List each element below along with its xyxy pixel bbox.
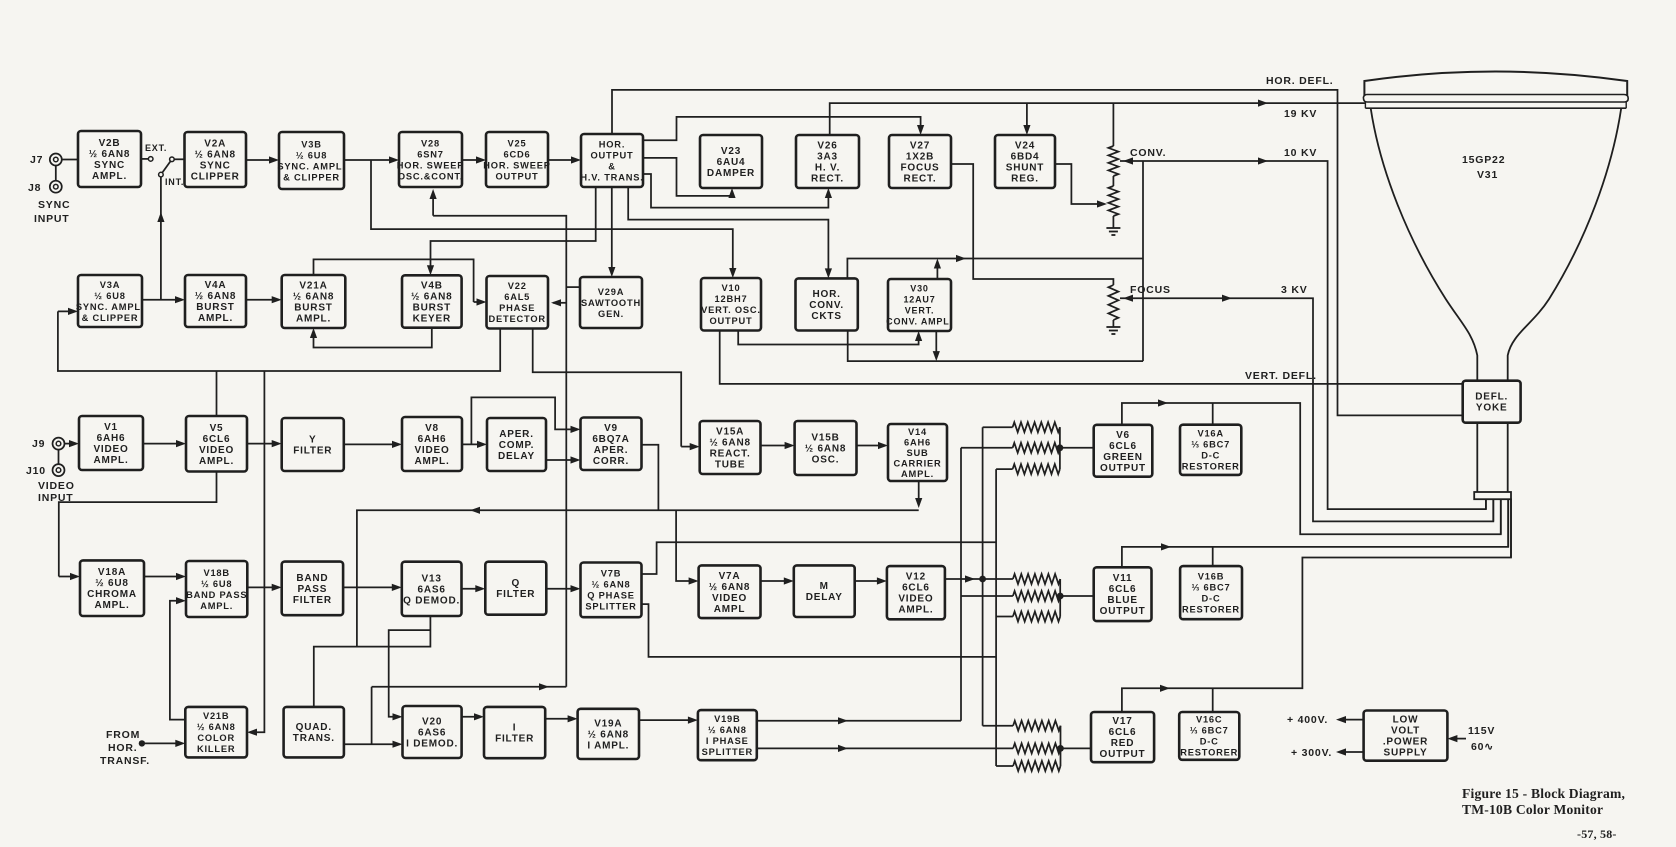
svg-text:SYNC: SYNC — [200, 161, 231, 172]
wire +300V — [1339, 751, 1364, 753]
svg-text:V29A: V29A — [598, 287, 624, 297]
wire V4A to V21A — [246, 299, 279, 301]
svg-text:QUAD.: QUAD. — [296, 722, 332, 733]
svg-text:V4B: V4B — [421, 281, 443, 292]
svg-text:V11: V11 — [1113, 573, 1133, 584]
block V18B bandpass ampl — [186, 561, 247, 617]
block V2A sync clipper — [185, 132, 247, 187]
svg-text:CHROMA: CHROMA — [87, 589, 137, 600]
wire V16B stub — [1212, 547, 1214, 566]
svg-text:RECT.: RECT. — [904, 174, 937, 185]
svg-text:APER.: APER. — [499, 429, 534, 440]
wire keying pulse to V4B — [431, 187, 596, 272]
wire V15A to V15B — [761, 445, 792, 447]
resistor red 3 — [996, 765, 1013, 767]
svg-text:6AH6: 6AH6 — [418, 434, 447, 445]
resistor green 2 — [961, 447, 1013, 449]
svg-text:.POWER: .POWER — [1383, 737, 1428, 748]
block Y filter — [282, 418, 344, 471]
svg-text:SYNC. AMPL.: SYNC. AMPL. — [76, 302, 144, 312]
wire M delay to V12 — [855, 580, 884, 582]
svg-text:DELAY: DELAY — [498, 451, 535, 462]
svg-text:J10: J10 — [26, 465, 46, 477]
svg-text:V18B: V18B — [203, 568, 229, 578]
wire blue output line — [1122, 498, 1508, 567]
svg-text:RESTORER: RESTORER — [1182, 462, 1240, 472]
svg-text:V15B: V15B — [811, 433, 839, 444]
svg-text:& CLIPPER: & CLIPPER — [283, 172, 340, 182]
wire V22 right bus — [533, 329, 682, 447]
wire V2A to V3B — [246, 159, 276, 161]
svg-text:VIDEO: VIDEO — [93, 444, 128, 455]
svg-text:V20: V20 — [422, 717, 442, 728]
svg-text:½ 6U8: ½ 6U8 — [95, 578, 128, 589]
svg-text:V6: V6 — [1116, 430, 1130, 441]
svg-text:6AU4: 6AU4 — [717, 157, 746, 168]
svg-text:GEN.: GEN. — [598, 309, 624, 319]
svg-text:6CD6: 6CD6 — [504, 149, 531, 159]
block V24 shunt reg — [995, 135, 1055, 188]
wire 115V input — [1450, 738, 1466, 740]
wire sawtooth to V22 — [553, 302, 566, 304]
wire V1 to V5 — [143, 443, 183, 445]
wire V16A stub — [1212, 403, 1214, 425]
svg-text:FOCUS: FOCUS — [901, 163, 940, 174]
svg-text:AMPL.: AMPL. — [92, 171, 127, 182]
wire 10KV conv line — [1120, 161, 1486, 509]
block band pass filter — [282, 562, 343, 616]
svg-text:YOKE: YOKE — [1476, 403, 1508, 414]
wire matrix Q vertical — [995, 469, 997, 766]
wire V25 to hor output — [548, 159, 578, 161]
wire 19KV branch to conv pot — [1112, 103, 1114, 146]
svg-text:½ 6AN8: ½ 6AN8 — [805, 444, 847, 455]
svg-text:½ 6AN8: ½ 6AN8 — [588, 729, 630, 740]
wire hor transf to V21B — [142, 742, 182, 744]
svg-text:SYNC: SYNC — [38, 199, 70, 211]
svg-text:D-C: D-C — [1202, 593, 1221, 603]
svg-text:I: I — [513, 723, 517, 734]
wire V22 left bus — [58, 311, 500, 371]
svg-text:COLOR: COLOR — [197, 733, 235, 743]
svg-text:6CL6: 6CL6 — [203, 434, 231, 445]
svg-text:V8: V8 — [425, 423, 439, 434]
block V4A burst ampl — [185, 275, 246, 327]
svg-text:V30: V30 — [910, 284, 928, 294]
svg-text:J9: J9 — [32, 438, 45, 450]
block V14 subcarrier ampl — [888, 424, 947, 481]
svg-text:DEFL.: DEFL. — [1475, 392, 1508, 403]
resistor green 3 — [996, 468, 1013, 470]
svg-text:REACT.: REACT. — [710, 449, 751, 460]
svg-text:HOR.: HOR. — [812, 289, 840, 300]
wire matrix I vertical — [960, 448, 962, 721]
svg-text:115V: 115V — [1468, 725, 1495, 737]
wire V16C stub — [1212, 688, 1214, 712]
wire quad line to V20 — [389, 630, 431, 717]
svg-text:CARRIER: CARRIER — [894, 458, 942, 468]
block Q filter — [485, 562, 546, 615]
svg-text:V2B: V2B — [99, 138, 121, 149]
svg-text:RECT.: RECT. — [811, 174, 844, 185]
wire V14 output stub — [918, 481, 920, 505]
wire +400V — [1339, 719, 1364, 721]
svg-text:VOLT: VOLT — [1391, 726, 1420, 737]
svg-text:VIDEO: VIDEO — [199, 445, 234, 456]
connector J10 — [53, 464, 65, 476]
svg-text:&: & — [608, 161, 616, 171]
svg-text:V12: V12 — [906, 572, 926, 583]
wire CRT pin 2 — [1492, 499, 1494, 521]
wire V3A to V4A — [142, 299, 182, 301]
svg-text:OUTPUT: OUTPUT — [1100, 463, 1146, 474]
svg-text:AMPL.: AMPL. — [901, 469, 934, 479]
svg-text:CLIPPER: CLIPPER — [191, 172, 240, 183]
svg-text:V9: V9 — [604, 423, 618, 434]
svg-text:½ 6AN8: ½ 6AN8 — [411, 292, 453, 303]
svg-text:AMPL.: AMPL. — [198, 313, 233, 324]
svg-text:H.V. TRANS.: H.V. TRANS. — [580, 172, 643, 182]
svg-text:SPLITTER: SPLITTER — [585, 602, 636, 612]
svg-text:½ 6U8: ½ 6U8 — [94, 291, 125, 301]
wire V27 to focus pot — [951, 164, 1113, 285]
svg-text:VIDEO: VIDEO — [38, 480, 75, 492]
svg-text:V5: V5 — [210, 423, 224, 434]
wire I filter to V19A — [545, 718, 574, 720]
svg-text:SPLITTER: SPLITTER — [702, 747, 753, 757]
svg-text:AMPL.: AMPL. — [414, 456, 449, 467]
svg-text:V24: V24 — [1015, 141, 1035, 152]
svg-text:GREEN: GREEN — [1103, 452, 1143, 463]
svg-text:HOR. SWEEP: HOR. SWEEP — [397, 160, 464, 170]
block V23 damper — [700, 135, 762, 188]
svg-text:V7A: V7A — [719, 571, 741, 582]
svg-text:DETECTOR: DETECTOR — [489, 314, 546, 324]
block V9 aper corr — [581, 418, 642, 471]
block hor output hv trans — [580, 134, 643, 187]
svg-text:½ 6AN8: ½ 6AN8 — [708, 725, 747, 735]
block V16B dc restorer — [1180, 566, 1242, 619]
svg-text:VIDEO: VIDEO — [712, 593, 747, 604]
wire hor defl to yoke — [612, 90, 1463, 416]
svg-text:V15A: V15A — [716, 427, 744, 438]
svg-text:BAND: BAND — [296, 573, 328, 584]
svg-text:½ 6AN8: ½ 6AN8 — [89, 149, 131, 160]
wire V3B sync to V10 — [371, 160, 733, 275]
block V10 vert osc output — [701, 278, 761, 331]
svg-text:SYNC: SYNC — [94, 160, 125, 171]
ground conv pot — [1112, 224, 1114, 228]
wire hor conv ckts lower link — [848, 331, 1143, 362]
wire J9 to V1 — [65, 443, 76, 445]
wire bus to V21B — [250, 371, 264, 732]
svg-text:SAWTOOTH: SAWTOOTH — [581, 298, 641, 308]
block V5 video ampl — [186, 416, 247, 472]
wire quad trans to V20 — [344, 743, 400, 745]
wire sawtooth feedback run — [433, 216, 566, 687]
svg-text:H. V.: H. V. — [815, 163, 840, 174]
svg-text:BURST: BURST — [196, 302, 234, 313]
svg-text:½ 6U8: ½ 6U8 — [201, 579, 232, 589]
svg-text:1X2B: 1X2B — [906, 152, 934, 163]
wire Y filter to V8 — [344, 443, 399, 445]
wire vert defl — [720, 331, 1463, 384]
svg-text:Q DEMOD.: Q DEMOD. — [403, 595, 460, 606]
block V29A sawtooth gen — [580, 277, 642, 328]
svg-text:SHUNT: SHUNT — [1006, 163, 1044, 174]
svg-text:V7B: V7B — [601, 569, 622, 579]
svg-text:RESTORER: RESTORER — [1182, 604, 1240, 614]
wire CRT pin 5 — [1510, 499, 1512, 557]
svg-text:½ 6AN8: ½ 6AN8 — [709, 438, 751, 449]
wire V18A to V18B — [144, 576, 183, 578]
svg-text:10 KV: 10 KV — [1284, 147, 1317, 159]
svg-text:V16A: V16A — [1197, 429, 1223, 439]
block V21A burst ampl — [282, 275, 346, 328]
ground focus pot — [1112, 323, 1114, 327]
block V3A sync ampl clipper — [76, 275, 144, 327]
block M delay — [794, 565, 855, 617]
block V4B burst keyer — [402, 275, 462, 327]
svg-text:V22: V22 — [508, 281, 527, 291]
wire common to V2A — [174, 158, 184, 160]
node blue junction — [1057, 593, 1064, 600]
block V22 phase detector — [487, 276, 549, 329]
svg-text:OUTPUT: OUTPUT — [495, 171, 538, 181]
svg-text:J7: J7 — [30, 154, 43, 166]
svg-text:D-C: D-C — [1200, 737, 1219, 747]
svg-text:V21B: V21B — [203, 711, 229, 721]
svg-text:½ 6AN8: ½ 6AN8 — [293, 292, 335, 303]
svg-text:CKTS: CKTS — [811, 311, 841, 322]
block V16C dc restorer — [1179, 712, 1239, 760]
wire M bus — [357, 510, 919, 646]
svg-text:FOCUS: FOCUS — [1130, 284, 1171, 296]
svg-text:6AL5: 6AL5 — [504, 292, 530, 302]
block V6 green output — [1094, 425, 1153, 477]
wire Q splitter upper output — [642, 542, 997, 574]
svg-text:+ 400V.: + 400V. — [1287, 714, 1328, 726]
block V27 focus rect — [889, 135, 951, 188]
svg-text:½ 6AN8: ½ 6AN8 — [592, 580, 631, 590]
svg-text:AMPL.: AMPL. — [296, 314, 331, 325]
svg-text:BAND PASS: BAND PASS — [186, 590, 247, 600]
svg-text:Q: Q — [512, 578, 521, 589]
svg-text:OUTPUT: OUTPUT — [709, 316, 752, 326]
svg-text:FROM: FROM — [106, 729, 140, 741]
wire quad reference drop — [371, 687, 373, 744]
block V13 Q demod — [402, 562, 462, 616]
svg-text:AMPL: AMPL — [714, 604, 746, 615]
wire V30 top stub — [936, 262, 938, 279]
svg-text:V4A: V4A — [205, 280, 227, 291]
svg-text:OUTPUT: OUTPUT — [590, 150, 633, 160]
svg-text:VERT. DEFL.: VERT. DEFL. — [1245, 370, 1317, 382]
wire V15B to V14 — [857, 445, 886, 447]
wire matrix M vertical — [982, 427, 984, 726]
svg-text:OUTPUT: OUTPUT — [1100, 749, 1146, 760]
wire V5 bottom takeoff — [59, 472, 217, 577]
wire Q splitter lower output — [642, 604, 997, 657]
svg-text:M: M — [820, 581, 829, 592]
wire delay bypass to V9 — [471, 397, 577, 444]
block low volt power supply — [1364, 711, 1448, 761]
svg-text:DAMPER: DAMPER — [707, 168, 755, 179]
svg-text:3 KV: 3 KV — [1281, 284, 1308, 296]
potentiometer FOCUS — [1108, 285, 1118, 320]
wire hor conv ckts upper link — [847, 259, 1143, 279]
svg-text:SUPPLY: SUPPLY — [1384, 748, 1428, 759]
svg-text:REG.: REG. — [1011, 174, 1039, 185]
block V20 I demod — [403, 706, 462, 758]
svg-text:INT.: INT. — [165, 177, 184, 187]
wire V5 top stub — [216, 371, 218, 416]
svg-text:½ 6AN8: ½ 6AN8 — [197, 722, 236, 732]
svg-text:DELAY: DELAY — [806, 592, 843, 603]
CRT socket flange — [1474, 492, 1511, 499]
block V19B I phase splitter — [698, 710, 757, 760]
block V8 video ampl — [402, 417, 462, 471]
svg-text:COMP.: COMP. — [499, 440, 535, 451]
svg-text:SYNC. AMPL.: SYNC. AMPL. — [277, 161, 345, 171]
svg-text:½ 6AN8: ½ 6AN8 — [709, 582, 751, 593]
wire green junction to V6 — [1060, 447, 1094, 449]
svg-text:V17: V17 — [1112, 716, 1132, 727]
wire V10 to V30 — [738, 331, 918, 345]
wire aper delay to V9 — [546, 459, 578, 461]
svg-text:AMPL.: AMPL. — [199, 456, 234, 467]
svg-text:TUBE: TUBE — [715, 460, 745, 471]
block aper comp delay — [487, 418, 546, 471]
wire green junction bar — [1059, 427, 1061, 469]
svg-text:HOR. DEFL.: HOR. DEFL. — [1266, 75, 1334, 87]
svg-text:6AH6: 6AH6 — [904, 437, 931, 447]
wire hor output to V26 — [643, 174, 829, 208]
svg-text:I AMPL.: I AMPL. — [587, 740, 629, 751]
potentiometer CONV — [1108, 146, 1118, 176]
svg-text:12BH7: 12BH7 — [715, 294, 748, 304]
wire V21A to V22 arrow — [474, 301, 484, 303]
svg-text:BLUE: BLUE — [1107, 595, 1137, 606]
svg-text:TRANSF.: TRANSF. — [100, 755, 150, 767]
wire 3KV focus line — [1120, 298, 1493, 521]
block V7A video ampl — [699, 565, 761, 618]
wire bandpass to V13 — [343, 586, 399, 588]
wire V2B to EXT contact — [141, 158, 148, 160]
svg-text:V13: V13 — [421, 573, 441, 584]
svg-text:V28: V28 — [421, 138, 440, 148]
svg-text:⅓ 6BC7: ⅓ 6BC7 — [1192, 582, 1231, 592]
wire V28 to V25 — [462, 159, 483, 161]
block V1 video ampl — [79, 416, 143, 470]
wire CRT pin 1 — [1485, 499, 1487, 509]
wire I splitter upper output — [757, 720, 961, 722]
svg-text:6CL6: 6CL6 — [902, 583, 930, 594]
block V7B Q phase splitter — [581, 563, 642, 618]
switch arm INT — [162, 162, 170, 173]
svg-text:VERT. OSC.: VERT. OSC. — [701, 305, 761, 315]
wire V24 to conv pot — [1055, 164, 1103, 204]
wire blue junction bar — [1059, 579, 1061, 617]
wire quad reference horizontal — [372, 686, 567, 688]
wire hor output to V29A — [611, 187, 613, 274]
svg-text:6SN7: 6SN7 — [417, 149, 443, 159]
svg-text:V3A: V3A — [100, 280, 121, 290]
svg-text:RESTORER: RESTORER — [1180, 748, 1238, 758]
svg-text:6AS6: 6AS6 — [417, 584, 445, 595]
svg-text:KILLER: KILLER — [197, 744, 235, 754]
svg-text:AMPL.: AMPL. — [94, 600, 129, 611]
wire I splitter lower output — [757, 747, 1013, 749]
wire V19A to V19B — [639, 719, 695, 721]
block hor conv ckts — [796, 278, 858, 330]
svg-text:V27: V27 — [910, 141, 930, 152]
svg-text:V14: V14 — [908, 427, 927, 437]
svg-text:V16C: V16C — [1196, 715, 1222, 725]
wire red output line — [1122, 498, 1511, 712]
block V15A react tube — [700, 421, 761, 474]
svg-text:SUB: SUB — [906, 448, 928, 458]
wire V21A to V22 — [314, 259, 474, 302]
svg-text:60∿: 60∿ — [1471, 741, 1494, 753]
svg-text:+ 300V.: + 300V. — [1291, 747, 1332, 759]
wire V20 to I filter — [462, 716, 481, 718]
svg-text:V1: V1 — [104, 422, 118, 433]
svg-text:⅓ 6BC7: ⅓ 6BC7 — [1190, 726, 1229, 736]
wire V18B to bandpass filter — [247, 586, 278, 588]
svg-text:V18A: V18A — [98, 567, 126, 578]
svg-text:APER.: APER. — [594, 445, 629, 456]
switch contact common — [170, 157, 175, 162]
wire quad trans to V13 — [314, 615, 431, 707]
svg-text:V19B: V19B — [714, 714, 740, 724]
wire V9 output — [642, 445, 659, 511]
svg-text:½ 6U8: ½ 6U8 — [296, 150, 327, 160]
svg-text:PASS: PASS — [298, 584, 328, 595]
wire V13 to Q filter — [462, 588, 483, 590]
block V2B sync ampl — [78, 131, 141, 187]
CRT 15GP22 envelope — [1364, 72, 1627, 97]
svg-text:⅓ 6BC7: ⅓ 6BC7 — [1191, 440, 1230, 450]
node FROM HOR TRANSF — [139, 740, 145, 746]
wire red junction bar — [1060, 726, 1062, 766]
block V15B osc — [795, 421, 857, 475]
wire V21B to V18B — [170, 601, 185, 720]
svg-text:FILTER: FILTER — [293, 446, 332, 457]
svg-text:-57, 58-: -57, 58- — [1577, 827, 1617, 841]
svg-text:6AS6: 6AS6 — [418, 728, 446, 739]
svg-text:FILTER: FILTER — [495, 734, 534, 745]
resistor red 1 — [983, 725, 1014, 727]
wire V4B to V21A loop — [314, 328, 432, 348]
svg-text:3A3: 3A3 — [817, 152, 838, 163]
wire 19KV branch to V24 — [1026, 103, 1028, 132]
svg-text:CONV.: CONV. — [809, 300, 844, 311]
svg-text:EXT.: EXT. — [145, 143, 167, 153]
wire J7 to V2B — [62, 159, 78, 161]
svg-text:12AU7: 12AU7 — [903, 295, 935, 305]
wire bus to V15A — [681, 446, 697, 448]
svg-text:HOR.: HOR. — [108, 742, 137, 754]
svg-text:D-C: D-C — [1201, 451, 1220, 461]
svg-text:V31: V31 — [1477, 169, 1498, 181]
svg-text:½ 6AN8: ½ 6AN8 — [194, 150, 236, 161]
svg-text:RED: RED — [1111, 738, 1135, 749]
block V21B color killer — [185, 707, 247, 758]
wire sawtooth to V29A — [566, 286, 580, 288]
svg-text:OSC.: OSC. — [812, 455, 840, 466]
svg-text:I PHASE: I PHASE — [706, 736, 749, 746]
